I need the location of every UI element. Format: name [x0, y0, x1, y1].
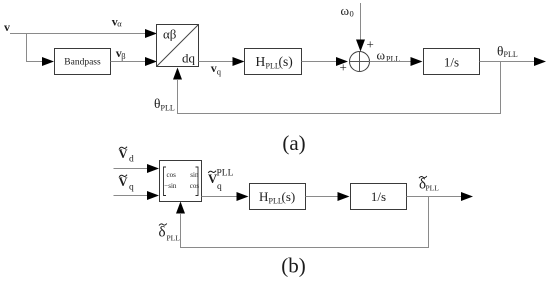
wire v_d input to matrix block: [114, 164, 160, 173]
wire v_q output of dq block to H_PLL: [199, 57, 245, 66]
svg-text:PLL: PLL: [386, 55, 400, 64]
svg-text:+: +: [367, 37, 374, 52]
label theta_PLL output: [497, 44, 518, 60]
svg-text:V: V: [119, 175, 128, 189]
label omega_PLL: [377, 48, 401, 64]
block 1/s of diagram a: [424, 49, 480, 75]
svg-text:V: V: [119, 147, 128, 161]
svg-text:α: α: [117, 19, 122, 29]
svg-text:q: q: [129, 183, 134, 193]
label v_q: [211, 61, 222, 77]
svg-text:PLL: PLL: [426, 184, 440, 193]
label v_alpha: [112, 15, 123, 29]
svg-text:−sin: −sin: [164, 182, 177, 190]
svg-text:d: d: [129, 155, 134, 165]
svg-text:0: 0: [350, 9, 354, 19]
svg-text:1/s: 1/s: [371, 189, 386, 204]
summing junction: [350, 52, 370, 72]
svg-text:1/s: 1/s: [444, 55, 459, 70]
wire omega_0 down into summer: [356, 3, 365, 52]
svg-text:ω: ω: [341, 3, 350, 18]
svg-text:αβ: αβ: [163, 27, 177, 42]
svg-text:(b): (b): [281, 254, 306, 278]
label delta-tilde_PLL output: [419, 176, 439, 193]
svg-text:H: H: [259, 189, 268, 204]
wire H_PLL to summing junction: [302, 57, 349, 66]
svg-text:δ: δ: [159, 225, 166, 241]
svg-text:(s): (s): [279, 54, 293, 69]
wire H_PLL to 1/s in diagram b: [306, 192, 350, 201]
wire delta feedback to matrix block: [176, 197, 429, 248]
wire theta_PLL output: [480, 57, 547, 66]
svg-text:(a): (a): [282, 131, 305, 155]
svg-text:β: β: [121, 51, 125, 61]
wire v_q^PLL matrix output to H_PLL: [202, 192, 249, 201]
svg-text:+: +: [340, 60, 347, 75]
svg-text:Bandpass: Bandpass: [64, 58, 101, 68]
label v-tilde_q^PLL: [208, 169, 234, 193]
block Bandpass: [55, 49, 111, 75]
label v_beta: [116, 46, 126, 61]
svg-text:dq: dq: [182, 51, 196, 66]
svg-text:PLL: PLL: [504, 50, 518, 59]
svg-text:θ: θ: [154, 96, 160, 111]
svg-text:θ: θ: [497, 44, 503, 59]
label omega_0: [341, 3, 354, 19]
svg-text:(s): (s): [282, 189, 296, 204]
svg-text:q: q: [217, 67, 222, 77]
block H_PLL(s) of diagram a: [245, 49, 302, 75]
svg-text:cos: cos: [190, 182, 200, 190]
wire theta feedback to dq block: [173, 62, 501, 114]
wire delta_PLL output: [407, 192, 474, 201]
svg-text:q: q: [217, 182, 222, 192]
svg-text:PLL: PLL: [217, 169, 234, 179]
svg-text:cos: cos: [167, 171, 177, 179]
svg-text:ω: ω: [377, 48, 386, 63]
svg-text:v: v: [4, 20, 10, 34]
wire v branch down to Bandpass: [27, 34, 55, 67]
wire v_q input to matrix block: [114, 191, 160, 200]
label delta-tilde_PLL feedback: [159, 224, 181, 243]
block 1/s of diagram b: [351, 184, 407, 210]
svg-text:H: H: [256, 54, 266, 69]
wire Bandpass to alpha-beta block (v_beta path): [111, 57, 158, 66]
label theta_PLL feedback: [154, 96, 175, 113]
label v-tilde_q input: [119, 175, 135, 193]
block rotation matrix: [160, 161, 202, 202]
svg-text:PLL: PLL: [161, 104, 175, 113]
block H_PLL(s) of diagram b: [250, 184, 306, 210]
svg-text:sin: sin: [190, 171, 199, 179]
wire v to alpha-beta block (v_alpha path): [10, 29, 157, 38]
label v-tilde_d input: [119, 147, 135, 165]
svg-text:PLL: PLL: [167, 234, 181, 243]
block alpha-beta to dq transform: [157, 25, 199, 67]
wire summer to integrator 1/s: [370, 57, 423, 66]
